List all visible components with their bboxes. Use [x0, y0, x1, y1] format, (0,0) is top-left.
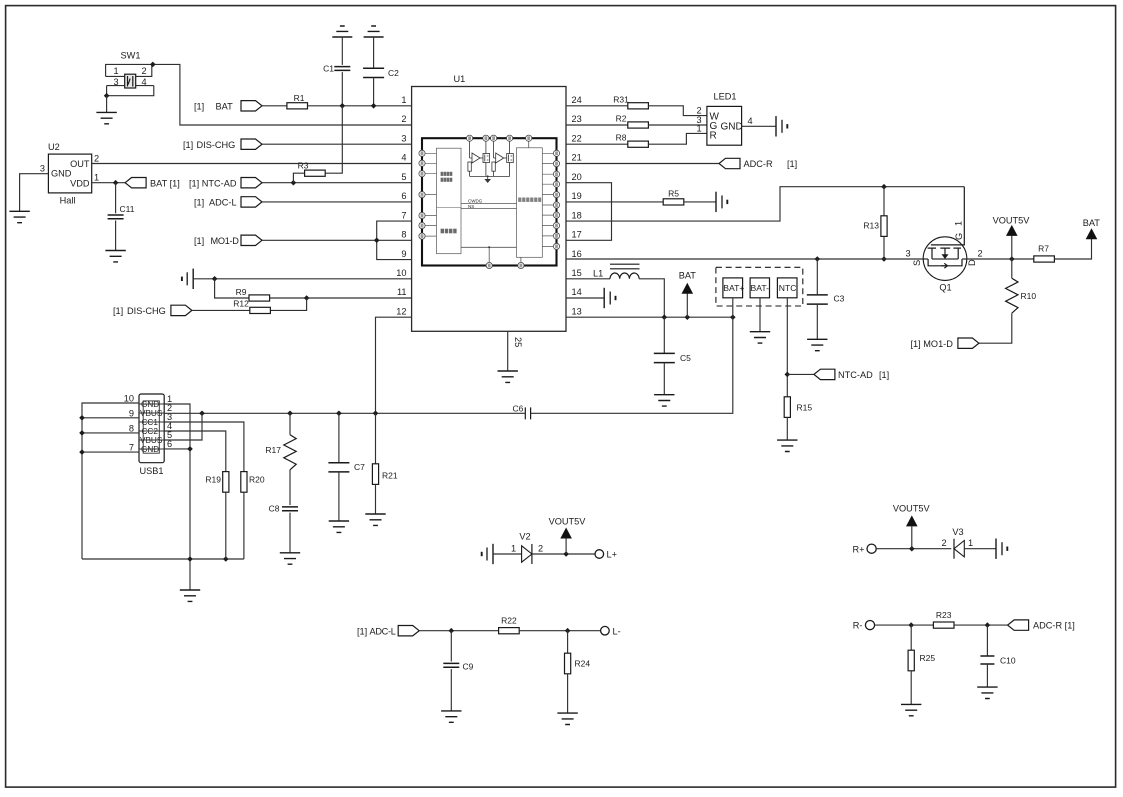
svg-text:[1]: [1] — [194, 101, 204, 111]
svg-text:VOUT5V: VOUT5V — [549, 517, 587, 527]
ground under R21 — [365, 514, 385, 525]
svg-text:SW1: SW1 — [121, 51, 141, 61]
ground under USB — [180, 590, 200, 601]
wire R1 to U1 pin 1 — [308, 105, 412, 107]
svg-text:R12: R12 — [233, 299, 249, 309]
junction R25 tap — [908, 622, 914, 628]
resistor R19 — [223, 472, 229, 493]
capacitor C9 — [450, 631, 452, 662]
resistor R22 — [499, 628, 520, 634]
power bar above C2 — [364, 26, 384, 37]
port NTC-AD left — [241, 178, 262, 188]
svg-text:L1: L1 — [593, 269, 603, 279]
USB1 right pin numbers — [167, 394, 172, 449]
terminal L+ — [595, 550, 604, 559]
svg-text:4: 4 — [747, 116, 752, 126]
svg-text:DIS-CHG: DIS-CHG — [127, 306, 166, 316]
resistor R3 — [293, 173, 304, 183]
internal bold box — [422, 138, 557, 265]
svg-text:NS: NS — [468, 204, 474, 209]
svg-text:1: 1 — [954, 221, 964, 226]
svg-text:12: 12 — [396, 306, 406, 316]
ground at U2 pin3 — [9, 211, 29, 222]
internal buffer group 1 — [468, 141, 490, 176]
resistor R9 — [249, 295, 270, 301]
battery symbol at U1 pin 14 — [566, 297, 604, 299]
svg-text:L+: L+ — [607, 550, 617, 560]
svg-text:[1]: [1] — [787, 159, 797, 169]
internal pin circles left edge — [419, 150, 425, 239]
wire R2 to LED1 pin 3 — [648, 124, 707, 126]
battery symbol at R5 — [716, 192, 727, 212]
svg-text:11: 11 — [397, 287, 407, 297]
wire R3 to C1 column — [325, 106, 342, 173]
wire R- to R23 — [875, 624, 934, 626]
junction C3 tap — [815, 256, 821, 262]
wire USB pin5 VBUS loop — [164, 413, 202, 440]
svg-text:S: S — [912, 260, 922, 266]
terminal R- — [865, 621, 874, 630]
svg-text:7: 7 — [129, 443, 134, 453]
svg-text:4: 4 — [401, 153, 406, 163]
resistor R24 — [567, 631, 569, 654]
svg-text:C6: C6 — [513, 404, 524, 414]
svg-text:7: 7 — [401, 210, 406, 220]
svg-text:R9: R9 — [236, 287, 247, 297]
svg-text:U2: U2 — [48, 142, 60, 152]
svg-text:R10: R10 — [1021, 291, 1037, 301]
wire U1 pin 23 to R2 — [566, 124, 628, 126]
terminal NTC — [777, 278, 797, 298]
capacitor C7 — [338, 413, 340, 462]
port ADC-R upper (right pointing left) — [719, 158, 740, 168]
ground under SW1 — [96, 112, 116, 123]
svg-text:13: 13 — [572, 306, 582, 316]
svg-text:3: 3 — [905, 249, 910, 259]
svg-text:15: 15 — [572, 268, 582, 278]
svg-text:R+: R+ — [852, 544, 864, 554]
port MO1-D right — [958, 338, 979, 348]
port MO1-D left — [241, 235, 262, 245]
svg-text:2: 2 — [94, 154, 99, 164]
internal pin circles right edge — [553, 150, 559, 249]
svg-text:9: 9 — [401, 249, 406, 259]
wire tap down to R12 row — [270, 298, 306, 310]
wire U1 pin 12 riser — [376, 317, 412, 413]
svg-text:ADC-R: ADC-R — [744, 159, 773, 169]
svg-text:R1: R1 — [294, 93, 305, 103]
wire R17 to C8 — [289, 470, 291, 505]
svg-text:USB1: USB1 — [140, 466, 164, 476]
svg-text:BAT+: BAT+ — [723, 283, 744, 293]
port DIS-CHG upper — [241, 139, 262, 149]
connector USB1 box — [139, 394, 164, 476]
svg-text:GND: GND — [51, 169, 72, 179]
ground under C5 — [654, 395, 674, 406]
svg-text:R8: R8 — [616, 133, 627, 143]
charger block — [437, 148, 462, 254]
wire U2 pin1 VDD — [92, 182, 125, 184]
svg-text:1: 1 — [696, 124, 701, 134]
svg-text:OUT: OUT — [70, 159, 90, 169]
svg-text:[1]: [1] — [194, 198, 204, 208]
transistor Q1 (MOSFET) — [905, 187, 982, 293]
junction bus R19 — [223, 556, 229, 562]
svg-text:BAT: BAT — [216, 101, 234, 111]
svg-text:19: 19 — [572, 191, 582, 201]
boost block text — [441, 229, 457, 234]
svg-text:C5: C5 — [680, 353, 691, 363]
svg-text:24: 24 — [572, 95, 582, 105]
wire ADC-L to U1 pin 6 — [262, 201, 412, 203]
svg-text:R25: R25 — [920, 653, 936, 663]
svg-text:BAT: BAT — [679, 271, 697, 281]
svg-text:C8: C8 — [269, 504, 280, 514]
junction VBUS at C7 — [336, 411, 342, 417]
svg-text:18: 18 — [572, 210, 582, 220]
svg-text:G: G — [954, 233, 964, 240]
resistor R21 — [375, 413, 377, 464]
wire U1 pin 21 to ADC-R port — [566, 163, 719, 165]
wire R25 to ground — [910, 671, 912, 705]
resistor R1 — [287, 103, 308, 109]
junction C2 on pin1 wire — [371, 103, 377, 109]
wire SW1 to ground — [106, 96, 108, 113]
bracket wire pins 17-20 — [566, 183, 612, 241]
wire U1 pin 22 to R8 — [566, 143, 628, 145]
charger block text — [441, 172, 453, 182]
junction bus to ground — [187, 556, 193, 562]
internal bus NS — [461, 208, 517, 210]
wire BAT port to R1 — [262, 105, 287, 107]
wire tap down to R9 row — [215, 279, 249, 298]
svg-text:2: 2 — [977, 249, 982, 259]
terminal L- — [601, 626, 610, 635]
USB1 left pin numbers — [124, 394, 134, 453]
svg-text:C7: C7 — [354, 462, 365, 472]
power VOUT5V at V2 — [565, 538, 567, 554]
svg-text:[1]: [1] — [113, 306, 123, 316]
svg-text:R31: R31 — [613, 95, 629, 105]
svg-text:ADC-L: ADC-L — [370, 626, 396, 636]
junction VDD node — [113, 180, 119, 186]
resistor R12 — [250, 307, 271, 313]
svg-text:[1] NTC-AD: [1] NTC-AD — [189, 178, 237, 188]
wire V3 to battery — [964, 548, 996, 550]
svg-text:14: 14 — [572, 287, 582, 297]
svg-text:R5: R5 — [668, 189, 679, 199]
inductor L1 — [566, 264, 640, 279]
svg-text:V3: V3 — [952, 527, 963, 537]
wire R21 to ground — [375, 484, 377, 514]
wire BAT+ down to pin13 bus — [732, 298, 734, 317]
svg-text:2: 2 — [141, 66, 146, 76]
resistor R13 — [883, 187, 885, 217]
port DIS-CHG lower — [171, 305, 192, 315]
junction C10 tap — [985, 622, 991, 628]
resistor R17 (zigzag) — [289, 413, 291, 435]
capacitor C2 — [373, 37, 375, 68]
svg-text:[1]: [1] — [879, 370, 889, 380]
svg-text:DIS-CHG: DIS-CHG — [197, 140, 236, 150]
svg-text:R19: R19 — [205, 475, 221, 485]
capacitor C1 — [341, 37, 343, 65]
junction VOUT5V at V3 — [909, 546, 915, 552]
junction left pin 7 — [79, 449, 85, 455]
svg-text:[1] MO1-D: [1] MO1-D — [911, 339, 954, 349]
wire LED1 pin 4 to battery — [742, 125, 776, 127]
svg-text:[1]: [1] — [194, 236, 204, 246]
junction R13 top — [881, 184, 887, 190]
svg-text:22: 22 — [572, 133, 582, 143]
wire MO1-D to U1 pin 8 — [262, 239, 412, 241]
touch control block text — [518, 198, 541, 202]
svg-text:R23: R23 — [936, 610, 952, 620]
svg-text:NTC-AD: NTC-AD — [838, 370, 873, 380]
U1 left pin numbers 1-12 — [396, 95, 406, 316]
resistor R5 — [663, 199, 684, 205]
wire USB pin6 GND — [164, 449, 190, 590]
ground under R24 — [557, 713, 577, 724]
wire R7 to BAT arrow — [1054, 239, 1091, 260]
IC U2 (Hall sensor) — [48, 142, 92, 206]
diode V2 — [519, 532, 532, 565]
svg-text:GND: GND — [721, 122, 743, 133]
svg-text:25: 25 — [513, 337, 523, 347]
svg-text:8: 8 — [129, 424, 134, 434]
svg-text:1: 1 — [94, 173, 99, 183]
svg-text:2: 2 — [538, 544, 543, 554]
svg-text:VOUT5V: VOUT5V — [893, 504, 931, 514]
internal pin circles bottom edge — [486, 262, 524, 268]
svg-text:R: R — [710, 131, 717, 142]
port ADC-L bottom — [398, 626, 419, 636]
terminal BAT+ — [723, 278, 744, 298]
svg-text:17: 17 — [572, 230, 582, 240]
port NTC-AD right (pointing left) — [814, 369, 835, 379]
wire R+ to V3 — [876, 548, 951, 550]
wire U2 pin2 OUT to U1 pin 4 — [92, 163, 412, 165]
internal buffer group 2 — [492, 141, 513, 176]
internal bus CWDG — [461, 203, 517, 205]
resistor R2 — [628, 122, 649, 128]
U1 right pin numbers 13-24 — [572, 95, 582, 316]
svg-text:5: 5 — [401, 172, 406, 182]
svg-text:R17: R17 — [265, 445, 281, 455]
svg-text:4: 4 — [141, 77, 146, 87]
capacitor C11 — [115, 183, 117, 214]
svg-text:Hall: Hall — [60, 196, 76, 206]
battery symbol at V3 cathode — [996, 539, 1007, 559]
internal bottom link — [461, 247, 517, 262]
svg-text:VOUT5V: VOUT5V — [993, 216, 1031, 226]
power bar above C1 — [332, 26, 352, 37]
svg-text:C3: C3 — [834, 294, 845, 304]
wire R23 to ADC-R port — [954, 624, 1008, 626]
wire R8 to LED1 pin 1 — [648, 133, 707, 144]
wire R31 to LED1 pin 2 — [648, 106, 707, 116]
junction R12 tap — [304, 295, 310, 301]
svg-text:VDD: VDD — [70, 178, 90, 188]
battery symbol at V2 anode — [482, 544, 493, 564]
wire R5 to battery — [684, 201, 716, 203]
U1 internal block diagram — [419, 135, 560, 269]
svg-text:9: 9 — [129, 409, 134, 419]
battery connector dashed box — [716, 267, 803, 306]
wire battery to U1 pin 10 — [193, 278, 411, 280]
svg-text:C2: C2 — [388, 68, 399, 78]
touch control block — [517, 148, 543, 257]
resistor R15 — [784, 397, 790, 418]
wire SW1 to U1 pin 2 — [153, 64, 412, 125]
svg-text:1: 1 — [401, 95, 406, 105]
junction R24 tap — [565, 628, 571, 634]
svg-text:3: 3 — [113, 77, 118, 87]
junction SW1 top — [150, 62, 156, 68]
junction left pin 8 — [79, 430, 85, 436]
wire U1 pin 13 bus — [566, 316, 733, 318]
svg-text:[1]: [1] — [183, 140, 193, 150]
svg-text:R20: R20 — [249, 475, 265, 485]
wire R24 to ground — [567, 674, 569, 713]
svg-text:C10: C10 — [1000, 656, 1016, 666]
svg-text:23: 23 — [572, 114, 582, 124]
svg-text:R21: R21 — [382, 471, 398, 481]
ground under C8 — [280, 553, 300, 564]
junction left pin 9 — [79, 415, 85, 421]
ground under C10 — [977, 687, 997, 698]
svg-text:2: 2 — [696, 106, 701, 116]
svg-text:BAT [1]: BAT [1] — [150, 178, 180, 188]
internal pin circle marks — [421, 136, 558, 267]
junction R13 bottom — [881, 256, 887, 262]
bracket wire pins 7-9 — [377, 221, 412, 260]
wire U1 pin 18 to Q1 gate rail — [612, 187, 965, 221]
wire R22 to L- — [519, 630, 600, 632]
resistor R25 — [910, 625, 912, 650]
capacitor C3 — [816, 259, 818, 294]
wire NTC down — [786, 298, 788, 397]
wire R15 to ground — [786, 417, 788, 440]
svg-text:ADC-R [1]: ADC-R [1] — [1033, 621, 1075, 631]
IC U1 outer box — [412, 74, 566, 331]
svg-text:8: 8 — [401, 230, 406, 240]
svg-text:C1: C1 — [323, 64, 334, 74]
svg-text:V2: V2 — [519, 532, 530, 542]
junction C9 tap — [449, 628, 455, 634]
svg-text:1: 1 — [511, 544, 516, 554]
power VOUT5V at Q1 — [1011, 235, 1013, 259]
junction VBUS at pin2 — [199, 411, 205, 417]
svg-text:6: 6 — [401, 191, 406, 201]
power BAT mid — [686, 294, 688, 318]
wire to NTC-AD port — [787, 373, 814, 375]
ground under C9 — [441, 711, 461, 722]
wire USB pin4 CC2 to R19 — [164, 431, 226, 472]
junction BAT+ node — [730, 314, 736, 320]
svg-text:LED1: LED1 — [714, 92, 737, 102]
ground under C7 — [329, 521, 349, 532]
switch SW1 — [106, 51, 154, 96]
svg-text:R15: R15 — [797, 403, 813, 413]
junction VOUT5V node — [1009, 256, 1015, 262]
battery symbol at U1 pin 10 — [182, 269, 193, 289]
svg-text:20: 20 — [572, 172, 582, 182]
wire USB pin2 VBUS — [164, 412, 375, 414]
svg-text:[1]: [1] — [357, 626, 367, 636]
svg-text:2: 2 — [401, 114, 406, 124]
junction bracket pin8 — [374, 238, 380, 244]
wire C6 to VBUS line — [376, 412, 526, 414]
LED LED1 box — [707, 92, 743, 146]
terminal R+ — [867, 544, 876, 553]
svg-text:21: 21 — [572, 153, 582, 163]
port ADC-L left — [241, 197, 262, 207]
svg-text:U1: U1 — [454, 74, 466, 84]
resistor R23 — [933, 622, 954, 628]
resistor R10 (zigzag) — [1011, 259, 1013, 278]
wire USB pin1 GND to vertical — [164, 404, 190, 449]
svg-text:1: 1 — [968, 538, 973, 548]
wire NTC-AD to U1 pin 5 — [262, 182, 412, 184]
svg-text:BAT-: BAT- — [751, 283, 770, 293]
svg-text:R13: R13 — [863, 221, 879, 231]
svg-text:R2: R2 — [616, 114, 627, 124]
wire ADC-L to R22 — [419, 630, 498, 632]
junction VBUS at R17 — [287, 411, 293, 417]
resistor R8 — [628, 141, 649, 147]
port ADC-R bottom (pointing left) — [1008, 620, 1029, 630]
junction pin6 GND — [187, 446, 193, 452]
junction pin10 tap — [212, 276, 218, 282]
U1 pin 25 wire — [507, 331, 509, 371]
junction BAT arrow node — [685, 314, 691, 320]
svg-text:BAT: BAT — [1083, 218, 1101, 228]
resistor R20 — [241, 472, 247, 493]
wire R20 to bus — [243, 492, 245, 559]
ground under R25 — [901, 704, 921, 715]
USB1 left pin wires to ground bus — [82, 403, 139, 559]
junction VOUT5V at V2 — [563, 551, 569, 557]
wire Q1 drain to node — [962, 258, 1034, 260]
svg-text:R22: R22 — [501, 616, 517, 626]
capacitor C8 — [282, 507, 298, 511]
svg-text:2: 2 — [941, 538, 946, 548]
ground at U1 pin 25 — [498, 371, 518, 382]
ground under BAT- — [750, 332, 770, 343]
power VOUT5V at V3 — [911, 526, 913, 548]
wire R19 to bus — [225, 492, 227, 559]
svg-text:16: 16 — [572, 249, 582, 259]
svg-text:3: 3 — [40, 164, 45, 174]
svg-text:C9: C9 — [463, 662, 474, 672]
resistor R31 — [628, 103, 649, 109]
svg-text:R7: R7 — [1038, 244, 1049, 254]
power BAT at R7 — [1086, 228, 1098, 239]
svg-text:R-: R- — [853, 621, 863, 631]
wire U1 pin 16 to Q1 source — [566, 258, 928, 260]
resistor R7 — [1034, 256, 1055, 262]
capacitor C5 — [663, 317, 665, 353]
junction C5 node — [662, 314, 668, 320]
wire pin 19 to R5 — [612, 201, 664, 203]
svg-text:Q1: Q1 — [939, 283, 951, 293]
internal left stubs — [425, 153, 436, 236]
svg-text:R3: R3 — [298, 161, 309, 171]
wire R9 to U1 pin 11 — [270, 297, 412, 299]
svg-text:R24: R24 — [575, 659, 591, 669]
wire riser VBUS to pin13 node — [531, 317, 733, 413]
